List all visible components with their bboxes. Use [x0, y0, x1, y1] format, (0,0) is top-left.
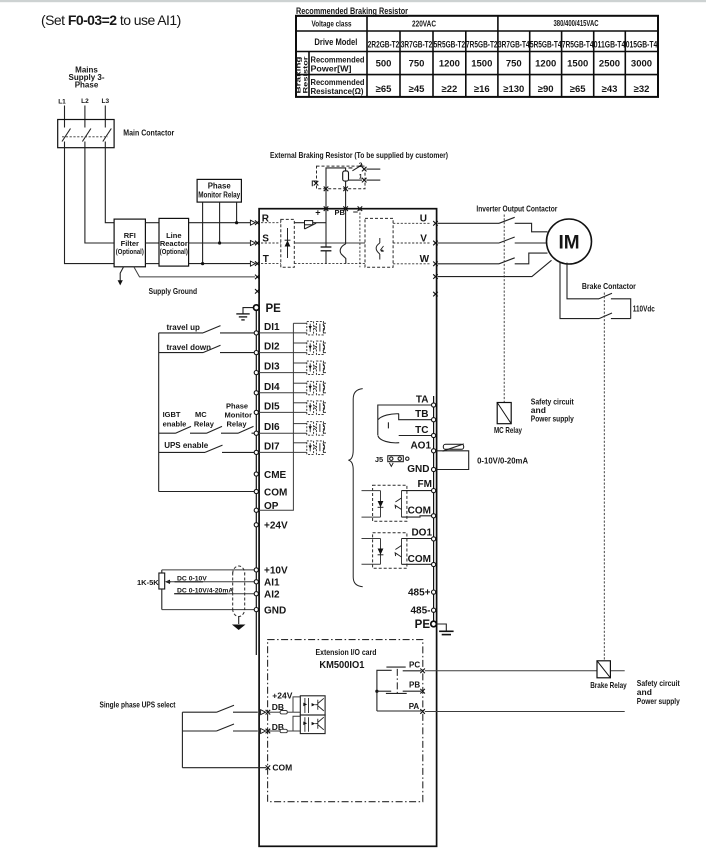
- terminal x T: [255, 261, 260, 266]
- wire L1 drop: [64, 106, 66, 128]
- svg-text:COM: COM: [272, 763, 292, 773]
- contactor pole V blade: [499, 237, 515, 243]
- terminal arrow R: [250, 220, 255, 225]
- terminal DI2: [254, 351, 258, 355]
- contactor pole W blade: [499, 258, 515, 264]
- x PB on resistor box bottom: [343, 187, 348, 192]
- svg-text:3000: 3000: [631, 59, 652, 70]
- rectifier dashed box: [281, 219, 295, 267]
- opto coupler DI2: [307, 341, 326, 355]
- svg-text:MC: MC: [195, 410, 207, 419]
- svg-text:IGBT: IGBT: [163, 410, 181, 419]
- UPS select bus: [181, 712, 183, 768]
- svg-text:≥65: ≥65: [570, 84, 586, 95]
- svg-text:2: 2: [359, 162, 363, 169]
- svg-text:≥22: ≥22: [442, 84, 458, 95]
- svg-text:External Braking Resistor (To: External Braking Resistor (To be supplie…: [270, 150, 448, 160]
- svg-text:+24V: +24V: [272, 690, 292, 700]
- left control bus: [158, 333, 160, 492]
- svg-text:(Optional): (Optional): [160, 247, 188, 256]
- inverter dashed box: [365, 218, 393, 267]
- svg-text:UPS enable: UPS enable: [164, 441, 209, 450]
- wires RFI to line reactor: [145, 223, 159, 264]
- x terminal minus: [358, 206, 363, 211]
- pin 1 x: [362, 178, 367, 183]
- terminal PE: [253, 305, 259, 311]
- wire resistor bottom to PB: [345, 181, 347, 189]
- svg-text:Supply Ground: Supply Ground: [149, 286, 198, 296]
- svg-text:DO1: DO1: [411, 527, 432, 538]
- svg-text:≥32: ≥32: [634, 84, 650, 95]
- svg-text:DI5: DI5: [264, 401, 280, 412]
- switch travel down on DI2: [159, 345, 255, 352]
- brake contactor wire lower: [611, 318, 631, 320]
- x terminal U: [433, 221, 438, 226]
- motor lead right drop: [567, 263, 599, 299]
- svg-text:500: 500: [376, 59, 392, 70]
- svg-text:L2: L2: [81, 98, 89, 105]
- svg-text:015GB-T4: 015GB-T4: [626, 40, 658, 50]
- potentiometer 1K-5K: [159, 573, 165, 589]
- + DC bus: [325, 209, 327, 247]
- supply ground wire to drive: [134, 267, 255, 277]
- svg-text:COM: COM: [264, 487, 287, 498]
- switch travel up on DI1: [159, 326, 255, 333]
- terminal DO1: [432, 537, 436, 541]
- svg-text:5R5GB-T2: 5R5GB-T2: [434, 40, 466, 50]
- table drive model row: [368, 40, 658, 50]
- svg-text:MC Relay: MC Relay: [494, 425, 522, 435]
- braking resistor table grid: [296, 16, 658, 97]
- FM output opto: [362, 485, 432, 521]
- wire rectifier to precharge: [294, 222, 304, 224]
- svg-text:FM: FM: [418, 479, 432, 490]
- left terminal strip inner rail: [255, 308, 257, 655]
- svg-text:1K-5K: 1K-5K: [137, 578, 159, 587]
- page top scan edge: [0, 0, 706, 2]
- opto coupler DI1: [307, 321, 326, 335]
- phase monitor relay drop to S: [219, 202, 221, 243]
- svg-text:AO1: AO1: [410, 441, 431, 452]
- opto coupler DI3: [307, 361, 326, 375]
- wire COM return: [159, 491, 255, 493]
- svg-text:485-: 485-: [410, 605, 430, 616]
- svg-text:+24V: +24V: [264, 521, 288, 532]
- svg-text:110Vdc: 110Vdc: [633, 304, 655, 314]
- svg-text:1: 1: [359, 174, 363, 181]
- svg-text:(Set F0-03=2 to use AI1): (Set F0-03=2 to use AI1): [41, 12, 181, 28]
- opto coupler DI7: [307, 441, 326, 455]
- brake relay coil: [597, 661, 610, 678]
- MC relay coil: [497, 403, 511, 424]
- svg-text:+: +: [315, 208, 320, 218]
- terminal arrow S: [250, 241, 255, 246]
- extension IO card dash-dot box: [268, 640, 423, 802]
- PC wire to brake relay: [425, 670, 625, 672]
- svg-text:Relay: Relay: [194, 419, 215, 428]
- AO1 external loop: [436, 451, 469, 470]
- terminal CME: [254, 472, 258, 476]
- DB2 branch to opto top: [293, 716, 300, 731]
- output group brace: [348, 389, 362, 587]
- svg-text:≥16: ≥16: [474, 84, 490, 95]
- relay TA/TB/TC contact: [378, 405, 432, 436]
- svg-text:IM: IM: [558, 233, 579, 254]
- svg-text:CME: CME: [264, 470, 287, 481]
- wire S into rectifier: [261, 242, 281, 244]
- label Mains Supply 3-Phase: [68, 66, 104, 90]
- svg-text:L3: L3: [102, 98, 110, 105]
- wire S to drive: [189, 242, 251, 244]
- table row: recommended power: [311, 56, 365, 74]
- svg-text:1200: 1200: [439, 59, 460, 70]
- svg-text:OP: OP: [264, 501, 279, 512]
- svg-text:DI3: DI3: [264, 362, 280, 373]
- wire DI2 to opto: [258, 352, 306, 354]
- braking resistor element: [343, 171, 349, 181]
- PA x: [420, 709, 425, 714]
- svg-text:1500: 1500: [567, 59, 588, 70]
- svg-text:011GB-T4: 011GB-T4: [594, 40, 626, 50]
- svg-text:Resistor: Resistor: [302, 56, 309, 93]
- svg-text:220VAC: 220VAC: [412, 19, 436, 29]
- wire +10V: [162, 569, 254, 571]
- wire DI5 to opto: [258, 411, 306, 413]
- minus dashed bus: [359, 209, 361, 268]
- main contactor KM box: [58, 120, 114, 148]
- brake contactor blade lower: [599, 313, 612, 319]
- left hook connection: [312, 181, 317, 186]
- svg-text:(Optional): (Optional): [116, 247, 144, 256]
- line reactor box: [159, 218, 189, 266]
- contactor linkage dashed to MC relay: [503, 215, 505, 403]
- wire DI7 to opto: [258, 451, 306, 453]
- junction on R: [235, 221, 238, 224]
- opto coupler DI4: [307, 381, 326, 395]
- contactor pole U blade: [499, 217, 515, 223]
- rectifier diode D1: [287, 228, 289, 258]
- svg-text:PB: PB: [409, 681, 420, 690]
- svg-text:Voltage class: Voltage class: [312, 20, 352, 29]
- svg-text:Single phase UPS select: Single phase UPS select: [100, 701, 176, 710]
- svg-text:DI7: DI7: [264, 441, 280, 452]
- phase monitor relay drop to T: [202, 202, 204, 264]
- terminal x R: [255, 220, 260, 225]
- card relay contact PC/PB/PA: [375, 667, 421, 711]
- terminal TB: [432, 418, 436, 422]
- switches on DI6: [159, 426, 255, 433]
- label Phase Monitor Relay (switch): [225, 402, 253, 429]
- svg-text:3R7GB-T4: 3R7GB-T4: [498, 40, 530, 50]
- pin 2 x: [362, 167, 367, 172]
- svg-text:AI2: AI2: [264, 590, 280, 601]
- svg-text:J5: J5: [375, 455, 383, 464]
- svg-text:Brake Contactor: Brake Contactor: [582, 281, 637, 291]
- svg-text:TB: TB: [415, 409, 428, 420]
- terminal DI1: [254, 331, 258, 335]
- svg-text:Brake Relay: Brake Relay: [590, 680, 627, 690]
- wire V dashed: [393, 242, 431, 244]
- terminal +10V: [254, 568, 258, 572]
- junction on S: [218, 241, 221, 244]
- terminal GND2: [432, 467, 436, 471]
- motor lead left drop: [560, 263, 599, 319]
- svg-text:DI6: DI6: [264, 422, 280, 433]
- svg-text:+10V: +10V: [264, 566, 288, 577]
- wire AI2: [174, 593, 254, 595]
- svg-text:Power[W]: Power[W]: [311, 65, 352, 74]
- terminal 485+: [432, 590, 436, 594]
- svg-text:PE: PE: [266, 303, 282, 315]
- svg-text:Phase: Phase: [75, 81, 99, 90]
- jumper J5 block: [388, 456, 404, 462]
- thermal contact blade: [349, 165, 363, 171]
- terminal COM4: [432, 562, 436, 566]
- terminal AI2: [254, 592, 258, 596]
- inverter IGBT Q1: [376, 238, 384, 260]
- wire S through power stage: [294, 242, 365, 244]
- svg-text:TA: TA: [416, 394, 429, 405]
- svg-text:PA: PA: [409, 702, 420, 711]
- motor IM: [547, 219, 592, 264]
- svg-text:7R5GB-T2: 7R5GB-T2: [466, 40, 498, 50]
- precharge resistor: [305, 221, 313, 225]
- terminal OP: [254, 508, 258, 512]
- wire L1 to RFI filter (T phase): [65, 148, 115, 264]
- RFI earth drop with arrow: [120, 267, 123, 281]
- right terminal strip inner rail: [433, 396, 435, 624]
- svg-text:DI2: DI2: [264, 342, 280, 353]
- DB2 input arrow: [261, 729, 266, 734]
- x terminal W: [433, 262, 438, 267]
- svg-text:7R5GB-T4: 7R5GB-T4: [562, 40, 594, 50]
- svg-text:COM: COM: [408, 505, 431, 516]
- card opto 1: [300, 696, 325, 715]
- wire DI6 to opto: [258, 432, 306, 434]
- spare x on left edge: [255, 289, 260, 294]
- brake chopper IGBT: [345, 209, 347, 244]
- svg-text:Recommended: Recommended: [311, 78, 365, 87]
- label Safety circuit and Power supply (upper): [531, 397, 574, 424]
- svg-text:0-10V/0-20mA: 0-10V/0-20mA: [477, 456, 528, 466]
- x terminal V: [433, 241, 438, 246]
- svg-text:W: W: [420, 254, 430, 265]
- svg-text:GND: GND: [264, 605, 286, 616]
- main contactor poles: [62, 129, 111, 148]
- svg-text:750: 750: [506, 59, 522, 70]
- DB1 input arrow: [261, 710, 266, 715]
- svg-text:V: V: [420, 233, 427, 244]
- svg-text:380/400/415VAC: 380/400/415VAC: [554, 18, 599, 28]
- x terminal +: [324, 206, 329, 211]
- svg-text:Resistance(Ω): Resistance(Ω): [311, 87, 364, 96]
- svg-text:750: 750: [409, 59, 425, 70]
- svg-text:−: −: [353, 207, 358, 217]
- switch UPS enable on DI7: [159, 445, 255, 452]
- wire GND: [162, 609, 254, 611]
- wire U to contactor: [438, 223, 548, 232]
- wire L2 drop: [84, 106, 86, 128]
- drive main box U1: [259, 209, 437, 847]
- terminal COM: [254, 489, 258, 493]
- x on hook: [314, 181, 319, 186]
- svg-text:Extension I/O card: Extension I/O card: [316, 647, 377, 657]
- brake contactor linkage dashed: [603, 293, 605, 661]
- table vertical label Braking Resistor: [296, 56, 310, 93]
- wire DI4 to opto: [258, 392, 306, 394]
- terminal +24V: [254, 523, 258, 527]
- UPS switch DB2: [182, 724, 257, 731]
- terminal TA: [432, 403, 436, 407]
- wire T to drive: [189, 263, 251, 265]
- svg-text:GND: GND: [407, 464, 429, 475]
- table header texts: [312, 18, 599, 47]
- svg-text:2R2GB-T2: 2R2GB-T2: [368, 40, 400, 50]
- terminal x ground: [255, 275, 260, 280]
- wire T through power stage: [294, 263, 365, 265]
- svg-text:Monitor: Monitor: [225, 411, 253, 420]
- brake contactor blade upper: [599, 293, 612, 299]
- svg-text:L1: L1: [58, 99, 66, 106]
- svg-text:≥90: ≥90: [538, 84, 554, 95]
- table row: recommended resistance: [311, 78, 365, 96]
- thermal contact lower stub: [349, 179, 363, 181]
- terminal DI4: [254, 391, 258, 395]
- svg-text:AI1: AI1: [264, 578, 280, 589]
- x terminal PB: [343, 206, 348, 211]
- svg-text:DI4: DI4: [264, 382, 280, 393]
- wire T into rectifier: [261, 263, 281, 265]
- PA wire: [425, 711, 625, 713]
- svg-text:COM: COM: [408, 554, 431, 565]
- terminal 485-: [432, 608, 436, 612]
- svg-text:TC: TC: [415, 425, 428, 436]
- terminal DI5: [254, 410, 258, 414]
- DO1 output opto: [362, 533, 432, 569]
- svg-text:travel down: travel down: [167, 343, 212, 352]
- DB2 x: [266, 729, 271, 734]
- svg-text:1200: 1200: [535, 59, 556, 70]
- phase monitor relay drop to R: [236, 202, 238, 223]
- wire U dashed: [393, 222, 431, 224]
- terminal AI1: [254, 580, 258, 584]
- svg-text:PC: PC: [409, 660, 420, 669]
- COM return wire: [182, 767, 266, 769]
- precharge bypass contact: [305, 223, 317, 229]
- label MC Relay (switch): [194, 410, 215, 428]
- DB1 x: [266, 710, 271, 715]
- terminal AO1: [432, 449, 436, 453]
- external braking resistor dashed box: [317, 166, 366, 189]
- label Safety circuit and Power supply (lower): [637, 678, 680, 706]
- junction on T: [201, 262, 204, 265]
- svg-text:PB: PB: [335, 208, 346, 217]
- svg-text:≥45: ≥45: [409, 84, 425, 95]
- terminal arrow T: [250, 261, 255, 266]
- svg-text:Inverter Output Contactor: Inverter Output Contactor: [476, 204, 558, 214]
- wire AI1: [166, 581, 254, 583]
- terminal DI3: [254, 371, 258, 375]
- opto coupler DI6: [307, 422, 326, 436]
- PE earth symbol: [243, 308, 254, 314]
- wire L2 to RFI filter (S phase): [85, 148, 114, 243]
- shield drain to earth: [238, 617, 240, 625]
- PB x: [420, 689, 425, 694]
- opto coupler DI5: [307, 401, 326, 415]
- PC x: [420, 669, 425, 674]
- phase monitor relay box: [197, 179, 241, 202]
- svg-text:3R7GB-T2: 3R7GB-T2: [401, 40, 433, 50]
- adjustable resistor on AO1: [443, 444, 463, 449]
- svg-text:≥130: ≥130: [503, 84, 524, 95]
- x spare right: [433, 292, 438, 297]
- x + on resistor box bottom: [324, 187, 329, 192]
- thermal contact wires out: [366, 168, 380, 170]
- svg-text:Monitor Relay: Monitor Relay: [198, 191, 241, 200]
- DB2 wire + resistor: [269, 730, 280, 732]
- card opto 2: [300, 715, 325, 734]
- terminal COM3: [432, 514, 436, 518]
- svg-text:DI1: DI1: [264, 322, 280, 333]
- brake contactor wire upper: [611, 299, 631, 319]
- wire R into rectifier: [261, 222, 281, 224]
- svg-text:U: U: [420, 214, 427, 225]
- UPS switch DB1: [182, 705, 257, 712]
- wire precharge to + bus: [313, 222, 326, 224]
- x terminal motor ground: [433, 274, 438, 279]
- terminal TC: [432, 433, 436, 437]
- bus capacitor C1: [321, 246, 332, 248]
- braking resistor table title: [296, 6, 408, 17]
- svg-text:≥43: ≥43: [602, 84, 618, 95]
- wire L3 to RFI filter (R phase): [105, 148, 114, 223]
- svg-text:Power supply: Power supply: [531, 414, 574, 424]
- terminal PE2: [431, 621, 437, 627]
- terminal DI7: [254, 450, 258, 454]
- svg-text:Recommended: Recommended: [311, 56, 365, 65]
- DB1 branch to opto top: [293, 697, 300, 712]
- wire W dashed: [393, 263, 431, 265]
- pot wiper arrow: [166, 581, 171, 583]
- svg-text:Main Contactor: Main Contactor: [123, 128, 175, 138]
- wire resistor top loop: [326, 168, 346, 189]
- PE2 earth symbol: [436, 624, 446, 631]
- wire DI1 to opto: [258, 332, 306, 334]
- wire PB down to drive: [345, 189, 347, 209]
- wire L3 drop: [104, 106, 106, 128]
- COM x: [266, 765, 271, 770]
- wire V to motor: [438, 242, 547, 244]
- svg-text:Phase: Phase: [208, 182, 232, 191]
- svg-text:2500: 2500: [599, 59, 620, 70]
- main contactor linkage: [62, 136, 108, 138]
- motor ground wire: [438, 260, 552, 276]
- opto feed bus: [258, 323, 293, 510]
- svg-text:KM500IO1: KM500IO1: [319, 659, 364, 671]
- svg-text:≥65: ≥65: [376, 84, 392, 95]
- wire R to drive: [189, 222, 251, 224]
- terminal x S: [255, 241, 260, 246]
- svg-text:Relay: Relay: [227, 419, 248, 428]
- terminal DI6: [254, 431, 258, 435]
- wire W to motor: [438, 253, 548, 264]
- wire DI3 to opto: [258, 372, 306, 374]
- cable shield: [233, 573, 245, 611]
- svg-text:5R5GB-T4: 5R5GB-T4: [530, 40, 562, 50]
- RFI filter box: [114, 219, 145, 267]
- svg-text:1500: 1500: [471, 59, 492, 70]
- svg-text:travel up: travel up: [167, 323, 200, 332]
